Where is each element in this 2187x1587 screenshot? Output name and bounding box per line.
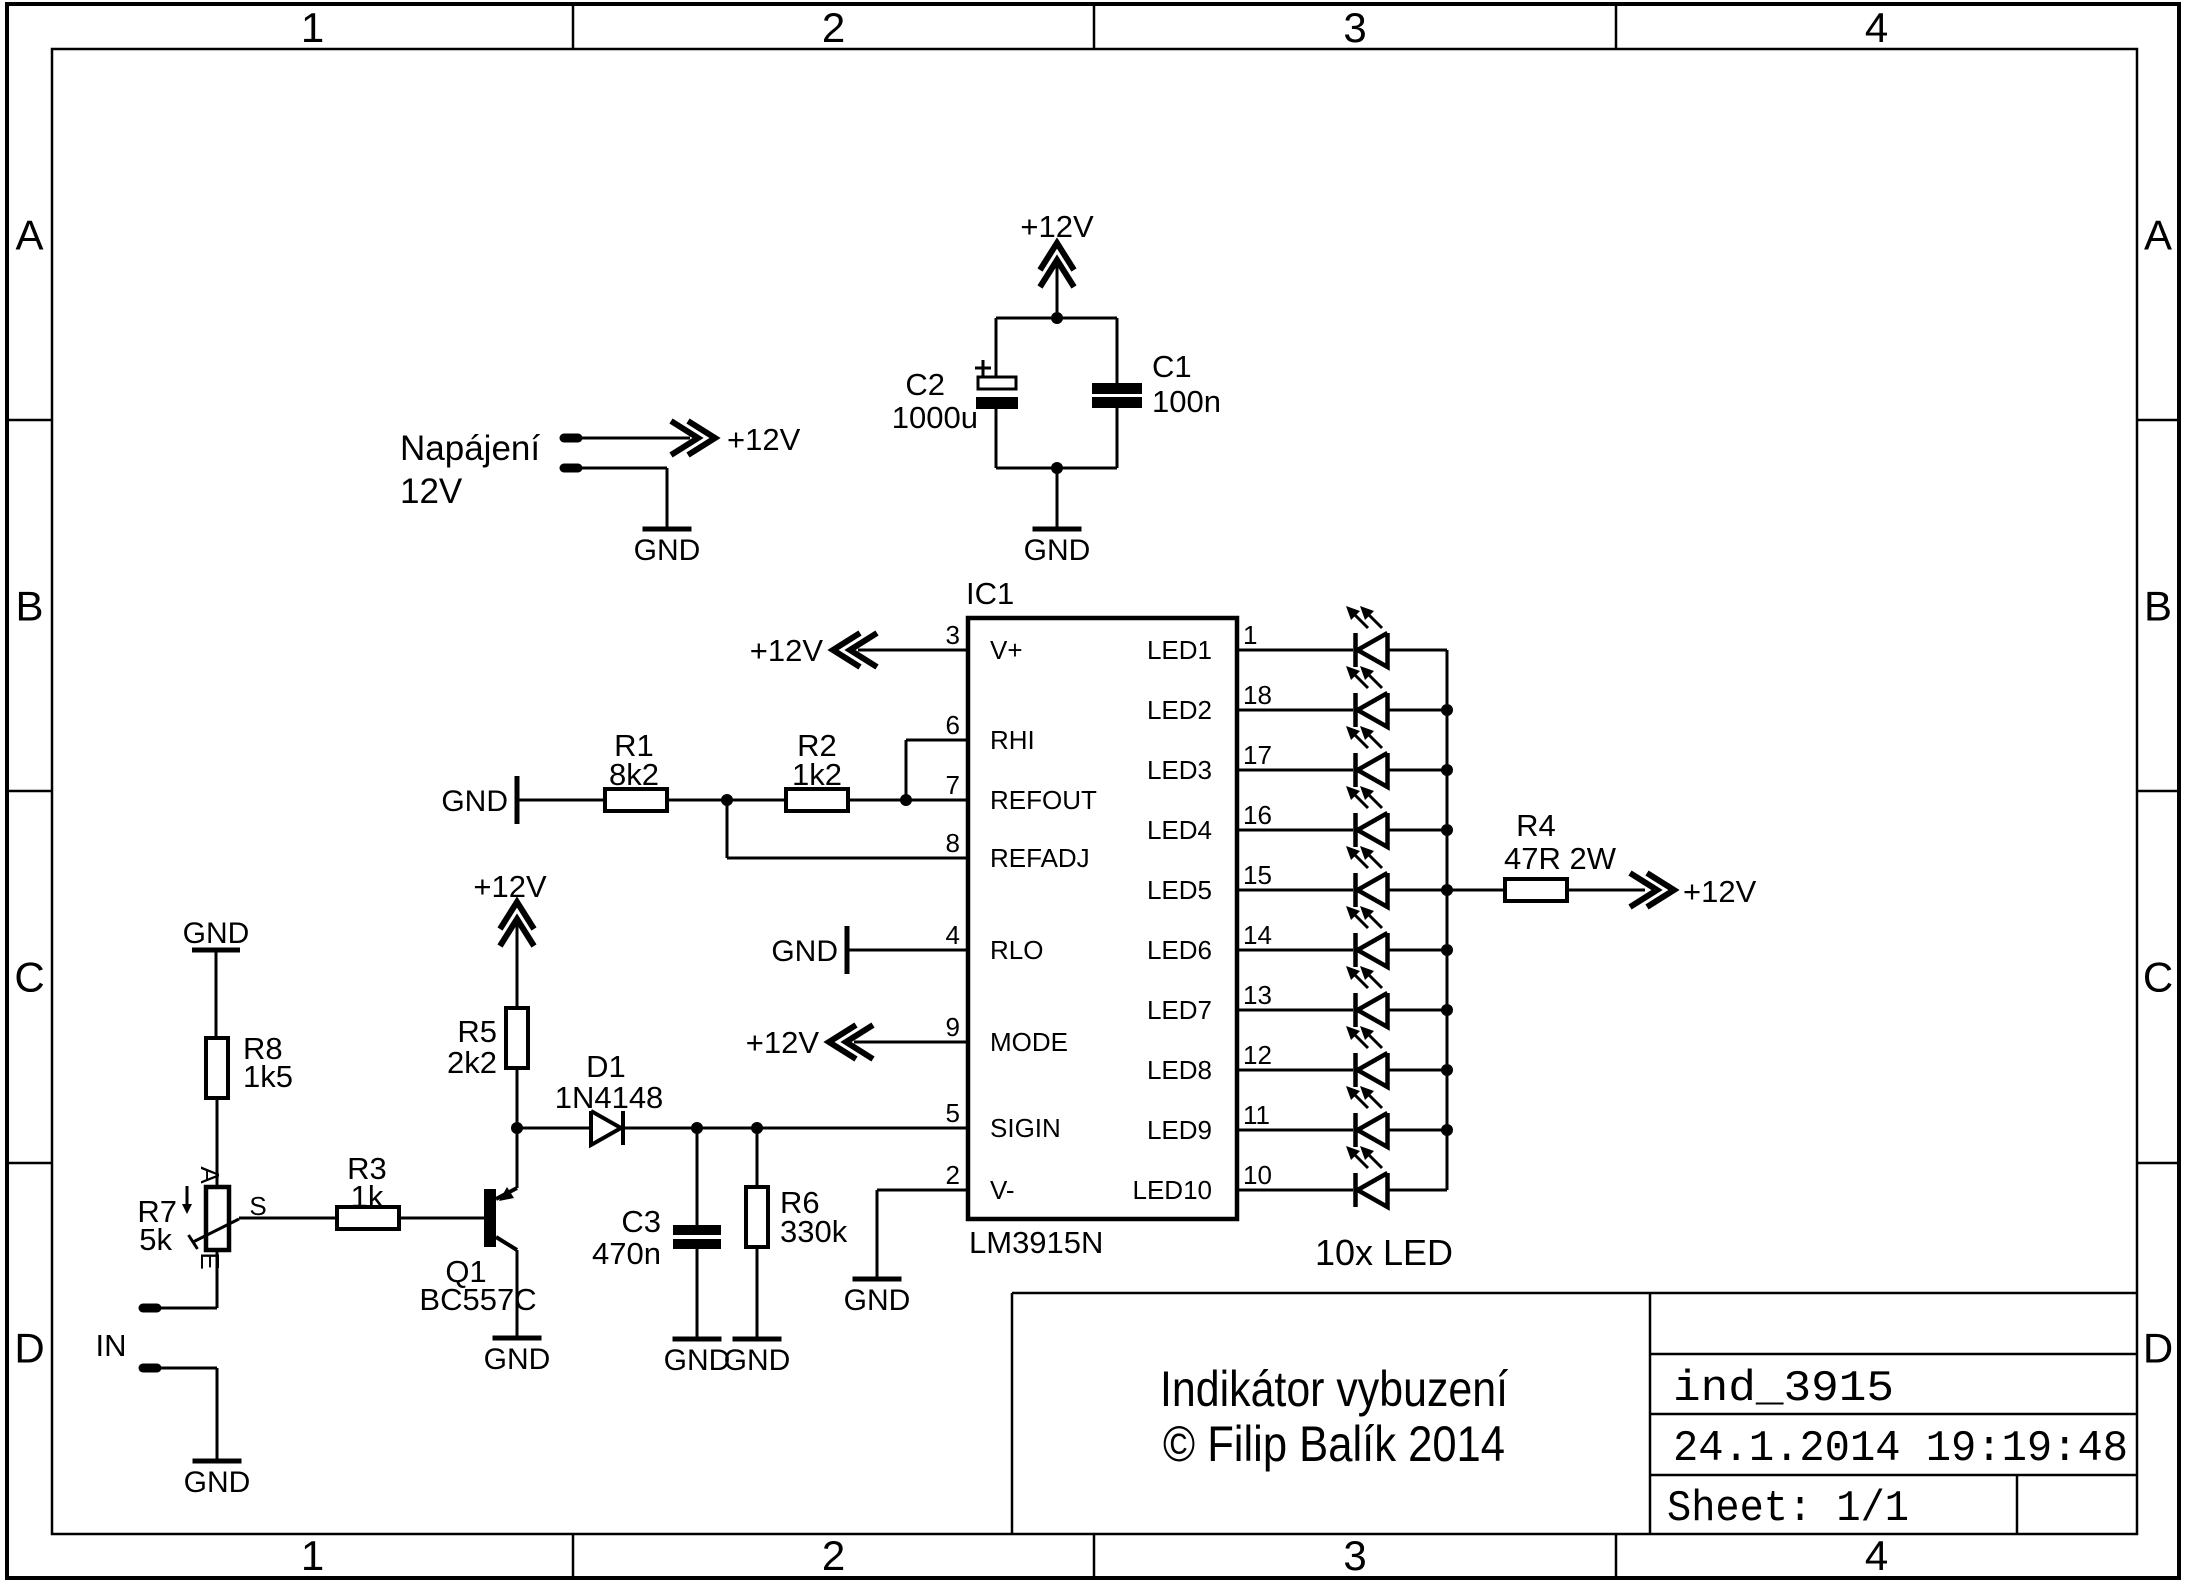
svg-text:MODE: MODE — [990, 1027, 1068, 1057]
svg-text:R4: R4 — [1516, 808, 1556, 843]
svg-text:D: D — [14, 1325, 44, 1372]
svg-text:GND: GND — [1024, 534, 1091, 567]
svg-text:5k: 5k — [139, 1222, 172, 1257]
svg-text:B: B — [2144, 583, 2172, 630]
svg-text:1: 1 — [301, 4, 324, 51]
svg-text:+12V: +12V — [750, 633, 824, 668]
svg-text:© Filip Balík 2014: © Filip Balík 2014 — [1163, 1416, 1505, 1472]
svg-text:330k: 330k — [780, 1214, 848, 1249]
svg-text:1N4148: 1N4148 — [555, 1080, 664, 1115]
svg-text:3: 3 — [1343, 4, 1366, 51]
svg-text:C2: C2 — [905, 367, 945, 402]
svg-text:LED10: LED10 — [1133, 1175, 1213, 1205]
svg-text:A: A — [15, 212, 43, 259]
svg-text:13: 13 — [1243, 980, 1272, 1010]
svg-text:LED6: LED6 — [1147, 935, 1212, 965]
svg-text:17: 17 — [1243, 740, 1272, 770]
svg-text:GND: GND — [724, 1344, 791, 1377]
svg-text:IN: IN — [96, 1328, 127, 1363]
svg-text:+12V: +12V — [727, 422, 801, 457]
svg-text:LED9: LED9 — [1147, 1115, 1212, 1145]
svg-text:14: 14 — [1243, 920, 1272, 950]
svg-text:GND: GND — [441, 785, 508, 818]
svg-text:GND: GND — [771, 935, 838, 968]
svg-text:V-: V- — [990, 1175, 1015, 1205]
svg-text:4: 4 — [946, 920, 960, 950]
svg-text:GND: GND — [183, 917, 250, 950]
svg-text:11: 11 — [1243, 1100, 1270, 1130]
svg-text:+12V: +12V — [1683, 874, 1757, 909]
svg-text:RLO: RLO — [990, 935, 1043, 965]
svg-text:D: D — [2143, 1325, 2173, 1372]
svg-text:8k2: 8k2 — [609, 757, 659, 792]
svg-text:GND: GND — [664, 1344, 731, 1377]
svg-text:12V: 12V — [400, 472, 463, 511]
svg-text:2k2: 2k2 — [447, 1045, 497, 1080]
svg-text:+12V: +12V — [746, 1025, 820, 1060]
svg-text:Sheet: 1/1: Sheet: 1/1 — [1667, 1484, 1909, 1534]
svg-text:A: A — [195, 1166, 225, 1184]
svg-text:8: 8 — [946, 828, 960, 858]
svg-text:C1: C1 — [1152, 349, 1192, 384]
svg-text:2: 2 — [822, 1532, 845, 1579]
svg-text:LED2: LED2 — [1147, 695, 1212, 725]
svg-text:D1: D1 — [586, 1049, 626, 1084]
svg-text:4: 4 — [1865, 1532, 1888, 1579]
svg-text:3: 3 — [1343, 1532, 1366, 1579]
svg-text:3: 3 — [946, 620, 960, 650]
svg-text:10: 10 — [1243, 1160, 1272, 1190]
svg-text:A: A — [2144, 212, 2172, 259]
svg-text:BC557C: BC557C — [419, 1282, 536, 1317]
svg-text:LED3: LED3 — [1147, 755, 1212, 785]
svg-text:LM3915N: LM3915N — [969, 1225, 1103, 1260]
svg-text:LED5: LED5 — [1147, 875, 1212, 905]
svg-text:C: C — [14, 954, 44, 1001]
svg-text:2: 2 — [822, 4, 845, 51]
svg-text:12: 12 — [1243, 1040, 1272, 1070]
svg-text:1k: 1k — [351, 1179, 384, 1214]
svg-text:1000u: 1000u — [892, 400, 978, 435]
svg-text:SIGIN: SIGIN — [990, 1113, 1061, 1143]
svg-text:GND: GND — [184, 1466, 251, 1499]
svg-text:GND: GND — [484, 1343, 551, 1376]
svg-text:ind_3915: ind_3915 — [1673, 1364, 1894, 1414]
svg-text:LED1: LED1 — [1147, 635, 1212, 665]
svg-text:47R 2W: 47R 2W — [1504, 841, 1617, 876]
svg-text:100n: 100n — [1152, 384, 1221, 419]
svg-text:LED8: LED8 — [1147, 1055, 1212, 1085]
svg-text:B: B — [15, 583, 43, 630]
svg-text:4: 4 — [1865, 4, 1888, 51]
svg-text:S: S — [249, 1191, 266, 1221]
svg-text:IC1: IC1 — [966, 576, 1014, 611]
svg-text:470n: 470n — [592, 1236, 661, 1271]
svg-text:18: 18 — [1243, 680, 1272, 710]
svg-text:LED4: LED4 — [1147, 815, 1212, 845]
svg-text:24.1.2014 19:19:48: 24.1.2014 19:19:48 — [1673, 1424, 2128, 1474]
svg-text:REFOUT: REFOUT — [990, 785, 1097, 815]
svg-text:V+: V+ — [990, 635, 1023, 665]
svg-text:C3: C3 — [621, 1204, 661, 1239]
svg-text:7: 7 — [946, 770, 960, 800]
svg-text:R5: R5 — [457, 1014, 497, 1049]
svg-text:RHI: RHI — [990, 725, 1035, 755]
svg-text:15: 15 — [1243, 860, 1272, 890]
svg-text:1: 1 — [301, 1532, 324, 1579]
svg-text:6: 6 — [946, 710, 960, 740]
svg-text:9: 9 — [946, 1012, 960, 1042]
svg-text:10x LED: 10x LED — [1315, 1232, 1453, 1273]
svg-text:5: 5 — [946, 1098, 960, 1128]
svg-text:LED7: LED7 — [1147, 995, 1212, 1025]
svg-text:E: E — [195, 1252, 225, 1269]
svg-text:1k5: 1k5 — [243, 1059, 293, 1094]
svg-text:1: 1 — [1243, 620, 1257, 650]
svg-text:16: 16 — [1243, 800, 1272, 830]
svg-text:1k2: 1k2 — [792, 757, 842, 792]
svg-text:GND: GND — [634, 534, 701, 567]
svg-text:REFADJ: REFADJ — [990, 843, 1090, 873]
svg-text:Napájení: Napájení — [400, 429, 540, 468]
svg-text:C: C — [2143, 954, 2173, 1001]
svg-text:Indikátor vybuzení: Indikátor vybuzení — [1160, 1361, 1508, 1417]
svg-text:2: 2 — [946, 1160, 960, 1190]
svg-text:GND: GND — [844, 1284, 911, 1317]
svg-text:+12V: +12V — [473, 869, 547, 904]
